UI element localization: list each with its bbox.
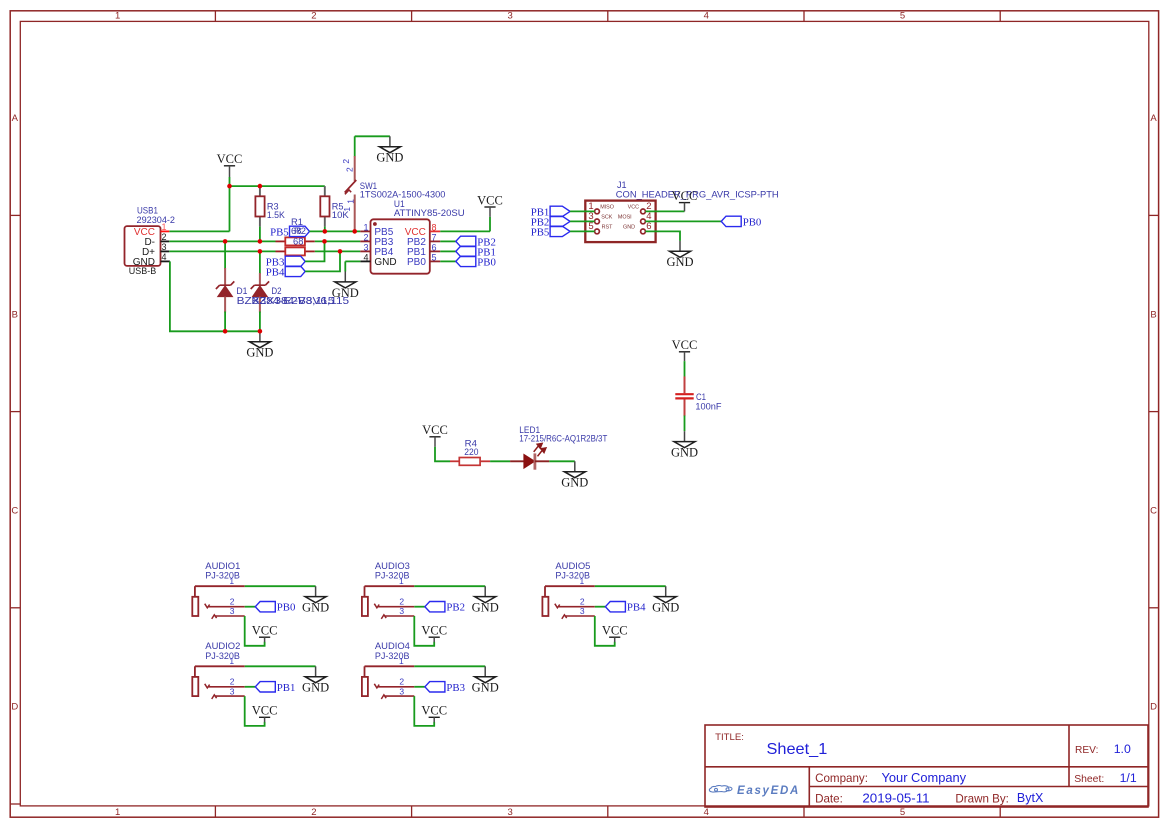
ground (USB / zeners) xyxy=(246,331,273,359)
svg-text:VCC: VCC xyxy=(672,189,698,203)
svg-text:1: 1 xyxy=(346,199,356,204)
svg-text:Sheet_1: Sheet_1 xyxy=(767,741,828,758)
svg-text:BytX: BytX xyxy=(1017,791,1044,805)
wire R3 bottom to D- line xyxy=(259,227,261,242)
resistor R3 xyxy=(255,186,264,227)
net flag PB1 (U1) xyxy=(456,246,496,258)
resistor R2 xyxy=(276,237,315,245)
net flag PB5 (J1 RST) xyxy=(531,226,570,238)
resistor R1 xyxy=(276,247,315,255)
wire USB pin1 (VCC) horizontal xyxy=(169,230,229,232)
svg-text:5: 5 xyxy=(900,807,905,818)
VCC power flag (J1 pin 2) xyxy=(672,189,698,211)
audio jack AUDIO2 body xyxy=(192,666,244,699)
svg-text:1: 1 xyxy=(115,807,120,818)
wire USB D+ to R1 left xyxy=(169,250,275,252)
svg-text:GND: GND xyxy=(302,681,329,695)
svg-text:GND: GND xyxy=(332,286,359,300)
svg-text:GND: GND xyxy=(302,601,329,615)
U1 pin 8 lead xyxy=(430,230,441,232)
svg-text:VCC: VCC xyxy=(602,624,628,638)
ground (AUDIO2) xyxy=(302,666,329,694)
capacitor C1 xyxy=(675,376,693,416)
svg-text:5: 5 xyxy=(900,10,905,21)
junction GND / D1 anode xyxy=(223,329,228,334)
svg-text:1.5K: 1.5K xyxy=(267,209,286,220)
net flag PB2 (J1 SCK) xyxy=(531,216,570,228)
svg-text:3: 3 xyxy=(507,10,512,21)
wire PB5 flag to J1 pin5 xyxy=(570,230,595,232)
svg-text:VCC: VCC xyxy=(672,338,698,352)
net flag PB0 (U1) xyxy=(456,256,496,268)
svg-text:PJ-320B: PJ-320B xyxy=(375,650,410,661)
VCC power flag (U1 pin 8) xyxy=(477,193,503,217)
U1 pin 4 lead xyxy=(360,260,370,262)
LED LED1 xyxy=(510,444,549,470)
IC U1 ATTINY85 body xyxy=(371,219,430,273)
VCC power flag (over USB) xyxy=(217,152,243,177)
svg-text:1.0: 1.0 xyxy=(1114,742,1131,756)
svg-text:PB0: PB0 xyxy=(277,602,296,614)
J1 pin 5 circle xyxy=(595,229,600,234)
audio jack AUDIO1 body xyxy=(192,586,244,619)
wire AUDIO1 pin2 to net flag xyxy=(245,606,256,608)
svg-text:2: 2 xyxy=(399,596,404,606)
zener diode D1 xyxy=(216,241,234,331)
svg-text:VCC: VCC xyxy=(422,423,448,437)
resistor R5 xyxy=(320,186,329,227)
audio jack AUDIO3 body xyxy=(362,586,414,619)
svg-text:2: 2 xyxy=(580,596,585,606)
svg-text:3: 3 xyxy=(230,686,235,696)
connector J1 body xyxy=(585,201,655,243)
net flag PB2 (AUDIO3) xyxy=(425,602,465,614)
svg-text:MOSI: MOSI xyxy=(618,214,632,220)
wire AUDIO4 pin2 to net flag xyxy=(414,686,425,688)
svg-text:PB4: PB4 xyxy=(627,602,646,614)
svg-text:3: 3 xyxy=(580,606,585,616)
wire R5 bottom to reset line xyxy=(324,227,326,232)
ground (AUDIO1) xyxy=(302,586,329,614)
svg-text:VCC: VCC xyxy=(217,152,243,166)
svg-text:PB4: PB4 xyxy=(266,266,285,278)
svg-text:PB2: PB2 xyxy=(446,602,465,614)
VCC power flag (AUDIO4) xyxy=(421,704,447,723)
VCC power flag (C1) xyxy=(672,338,698,361)
svg-text:EasyEDA: EasyEDA xyxy=(737,785,800,797)
wire VCC flag stub down xyxy=(489,217,491,232)
wire AUDIO3 pin3 to VCC xyxy=(414,616,434,646)
wire VCC stub to rail xyxy=(229,177,231,186)
junction VCC rail / R3 top xyxy=(258,184,263,189)
svg-text:1: 1 xyxy=(229,576,234,586)
wire AUDIO4 pin1 to ground xyxy=(414,665,485,667)
svg-text:GND: GND xyxy=(666,255,693,269)
svg-text:GND: GND xyxy=(376,151,403,165)
svg-text:100nF: 100nF xyxy=(695,400,721,411)
U1 pin 6 lead xyxy=(430,250,441,252)
svg-text:REV:: REV: xyxy=(1075,745,1098,756)
svg-text:ATTINY85-20SU: ATTINY85-20SU xyxy=(394,207,465,218)
J1 pin 2 circle xyxy=(641,209,646,214)
VCC power flag (R4) xyxy=(422,423,448,447)
wire J1 pin4 to PB0 flag xyxy=(645,220,721,222)
net flag PB0 (AUDIO1) xyxy=(255,602,295,614)
net flag PB0 (J1 MOSI) xyxy=(721,216,761,228)
svg-text:2: 2 xyxy=(311,807,316,818)
USB1 pin 4 lead xyxy=(161,260,170,262)
svg-text:3: 3 xyxy=(399,606,404,616)
junction GND / D2 anode xyxy=(258,329,263,334)
wire AUDIO5 pin2 to net flag xyxy=(595,606,606,608)
junction reset / R5 xyxy=(323,229,328,234)
EasyEDA logo xyxy=(709,785,800,797)
ground (AUDIO4) xyxy=(472,666,499,694)
VCC power flag (AUDIO2) xyxy=(252,704,278,723)
svg-text:Company:: Company: xyxy=(815,772,868,785)
net flag PB4 (AUDIO5) xyxy=(605,602,646,614)
wire R2 right to U1 PB3 xyxy=(315,240,361,242)
ground (LED1) xyxy=(561,461,588,489)
wire J1 pin2 to VCC xyxy=(645,210,684,212)
wire USB GND down and across xyxy=(170,261,260,331)
ground (AUDIO5) xyxy=(652,586,679,614)
svg-text:2: 2 xyxy=(311,10,316,21)
svg-text:PB0: PB0 xyxy=(743,216,762,228)
svg-text:1: 1 xyxy=(399,576,404,586)
svg-text:GND: GND xyxy=(623,224,635,230)
wire U1 PB2 to flag xyxy=(440,240,456,242)
J1 pin 4 circle xyxy=(641,219,646,224)
svg-text:2: 2 xyxy=(345,167,355,172)
junction D- / D1 xyxy=(223,239,228,244)
svg-text:VCC: VCC xyxy=(252,624,278,638)
wire SW1 top vertical xyxy=(354,136,356,156)
svg-text:3: 3 xyxy=(230,606,235,616)
svg-text:GND: GND xyxy=(472,681,499,695)
wire AUDIO1 pin3 to VCC xyxy=(245,616,265,646)
wire AUDIO2 pin1 to ground xyxy=(245,665,316,667)
wire U1 PB0 to flag xyxy=(440,260,456,262)
svg-text:1: 1 xyxy=(580,576,585,586)
junction D- / R3 xyxy=(258,239,263,244)
svg-text:PJ-320B: PJ-320B xyxy=(375,570,410,581)
svg-text:VCC: VCC xyxy=(421,624,447,638)
ground (U1 pin 4) xyxy=(332,272,359,300)
svg-text:2019-05-11: 2019-05-11 xyxy=(862,792,929,806)
svg-text:2: 2 xyxy=(341,159,351,164)
audio jack AUDIO4 body xyxy=(362,666,414,699)
svg-text:Your Company: Your Company xyxy=(882,771,967,785)
svg-text:2: 2 xyxy=(230,596,235,606)
wire VCC to R4 left xyxy=(435,447,450,461)
svg-text:VCC: VCC xyxy=(628,204,639,210)
svg-text:4: 4 xyxy=(704,807,709,818)
wire AUDIO4 pin3 to VCC xyxy=(414,696,434,726)
VCC power flag (AUDIO1) xyxy=(252,624,278,643)
wire PB5 flag to U1 pin1 xyxy=(310,230,361,232)
SW1 pin number 2 xyxy=(341,159,355,172)
U1 pin 1 lead xyxy=(360,230,370,232)
J1 pin 6 circle xyxy=(641,229,646,234)
svg-text:2: 2 xyxy=(230,677,235,687)
wire AUDIO1 pin1 to ground xyxy=(245,585,316,587)
zener diode D2 xyxy=(251,251,269,331)
wire U1 GND vertical xyxy=(344,261,346,271)
J1 pin 1 circle xyxy=(595,209,600,214)
net flag PB1 (AUDIO2) xyxy=(255,682,295,694)
wire VCC to C1 top xyxy=(684,361,686,377)
U1 pin 2 lead xyxy=(360,240,370,242)
wire LED1 cathode to ground xyxy=(549,460,575,462)
VCC power flag (AUDIO5) xyxy=(602,624,628,643)
svg-text:GND: GND xyxy=(246,346,273,360)
svg-text:Sheet:: Sheet: xyxy=(1074,774,1104,785)
svg-text:PJ-320B: PJ-320B xyxy=(555,570,590,581)
net flag PB4 xyxy=(266,266,305,278)
svg-text:A: A xyxy=(12,113,19,124)
svg-text:VCC: VCC xyxy=(477,193,503,207)
resistor R4 xyxy=(450,458,490,466)
junction D+ / PB4 branch xyxy=(338,249,343,254)
wire R1 right to U1 PB4 xyxy=(315,250,361,252)
wire SW1 pin2 to GND (horizontal) xyxy=(355,135,390,137)
wire AUDIO5 pin1 to ground xyxy=(595,585,666,587)
wire U1 PB1 to flag xyxy=(440,250,456,252)
ground (top, switch) xyxy=(376,136,403,164)
svg-text:C: C xyxy=(11,506,18,517)
switch SW1 xyxy=(345,156,357,231)
svg-text:GND: GND xyxy=(561,476,588,490)
svg-text:PJ-320B: PJ-320B xyxy=(205,570,240,581)
svg-text:PJ-320B: PJ-320B xyxy=(205,650,240,661)
svg-text:1: 1 xyxy=(399,656,404,666)
svg-text:PB5: PB5 xyxy=(531,226,550,238)
svg-text:PB3: PB3 xyxy=(446,682,465,694)
wire AUDIO2 pin3 to VCC xyxy=(245,696,265,726)
junction VCC rail / USB VCC branch xyxy=(227,184,232,189)
ground (AUDIO3) xyxy=(472,586,499,614)
svg-text:SCK: SCK xyxy=(601,214,612,220)
svg-text:VCC: VCC xyxy=(252,704,278,718)
svg-text:GND: GND xyxy=(133,257,155,268)
wire PB4 flag to D+ junction xyxy=(305,251,340,271)
svg-text:292304-2: 292304-2 xyxy=(137,214,176,225)
J1 pin 3 circle xyxy=(595,219,600,224)
net flag PB5 (reset line) xyxy=(270,226,309,238)
svg-text:MISO: MISO xyxy=(600,204,614,210)
net flag PB2 (U1) xyxy=(456,236,496,248)
U1 pin 3 lead xyxy=(360,250,370,252)
wire U1 GND pin horizontal xyxy=(345,260,360,262)
wire AUDIO2 pin2 to net flag xyxy=(245,686,256,688)
wire U1 VCC pin to VCC flag xyxy=(440,230,490,232)
svg-text:17-215/R6C-AQ1R2B/3T: 17-215/R6C-AQ1R2B/3T xyxy=(519,433,607,444)
ground (C1) xyxy=(671,431,698,459)
svg-text:3: 3 xyxy=(507,807,512,818)
svg-text:PB1: PB1 xyxy=(277,682,296,694)
svg-text:1/1: 1/1 xyxy=(1120,771,1137,785)
svg-text:1: 1 xyxy=(229,656,234,666)
junction reset / SW1 xyxy=(352,229,357,234)
U1 pin 5 lead xyxy=(430,260,441,262)
svg-text:1: 1 xyxy=(115,10,120,21)
svg-text:GND: GND xyxy=(652,601,679,615)
svg-text:220: 220 xyxy=(464,446,478,457)
svg-text:RST: RST xyxy=(602,224,613,230)
connector USB1 body xyxy=(125,226,161,266)
USB1 pin 2 lead xyxy=(161,240,170,242)
svg-text:4: 4 xyxy=(704,10,709,21)
wire PB2 flag to J1 pin3 xyxy=(570,220,595,222)
title block outline xyxy=(705,725,1148,807)
svg-text:B: B xyxy=(12,309,18,320)
U1 pin 7 lead xyxy=(430,240,441,242)
wire J1 pin6 to ground xyxy=(645,231,680,241)
svg-text:GND: GND xyxy=(472,601,499,615)
USB1 pin 3 lead xyxy=(161,250,170,252)
net flag PB3 xyxy=(266,256,305,268)
svg-text:TITLE:: TITLE: xyxy=(715,732,744,743)
wire AUDIO3 pin1 to ground xyxy=(414,585,485,587)
svg-text:10K: 10K xyxy=(332,209,350,220)
SW1 pin number 1 xyxy=(342,199,356,212)
net flag PB1 (J1 MISO) xyxy=(531,206,570,218)
wire PB1 flag to J1 pin1 xyxy=(570,210,595,212)
wire C1 bottom to ground xyxy=(684,416,686,432)
wire VCC rail horizontal xyxy=(230,185,325,187)
svg-text:PB0: PB0 xyxy=(407,257,426,268)
svg-text:GND: GND xyxy=(671,446,698,460)
svg-text:A: A xyxy=(1150,113,1157,124)
audio jack AUDIO5 body xyxy=(542,586,594,619)
junction D+ / D2 xyxy=(258,249,263,254)
wire R4 to LED1 anode xyxy=(490,460,510,462)
svg-text:GND: GND xyxy=(374,257,396,268)
svg-text:2: 2 xyxy=(399,677,404,687)
wire AUDIO3 pin2 to net flag xyxy=(414,606,425,608)
svg-text:Date:: Date: xyxy=(815,793,843,806)
wire VCC rail down to USB pin1 row xyxy=(229,186,231,231)
USB1 pin 1 lead xyxy=(161,230,170,232)
svg-text:VCC: VCC xyxy=(421,704,447,718)
svg-text:Drawn By:: Drawn By: xyxy=(955,793,1008,806)
wire USB D- to R2 left xyxy=(169,240,275,242)
wire PB3 flag to D- junction xyxy=(305,241,324,261)
VCC power flag (AUDIO3) xyxy=(421,624,447,643)
svg-text:D: D xyxy=(1150,702,1157,713)
svg-text:D: D xyxy=(11,702,18,713)
ground (J1 pin 6) xyxy=(666,241,693,269)
svg-text:C: C xyxy=(1150,506,1157,517)
wire AUDIO5 pin3 to VCC xyxy=(595,616,615,646)
net flag PB3 (AUDIO4) xyxy=(425,682,465,694)
svg-text:PB5: PB5 xyxy=(270,226,289,238)
junction D- / PB3 branch xyxy=(322,239,327,244)
svg-text:PB0: PB0 xyxy=(477,256,496,268)
svg-text:B: B xyxy=(1150,309,1156,320)
svg-text:3: 3 xyxy=(399,686,404,696)
